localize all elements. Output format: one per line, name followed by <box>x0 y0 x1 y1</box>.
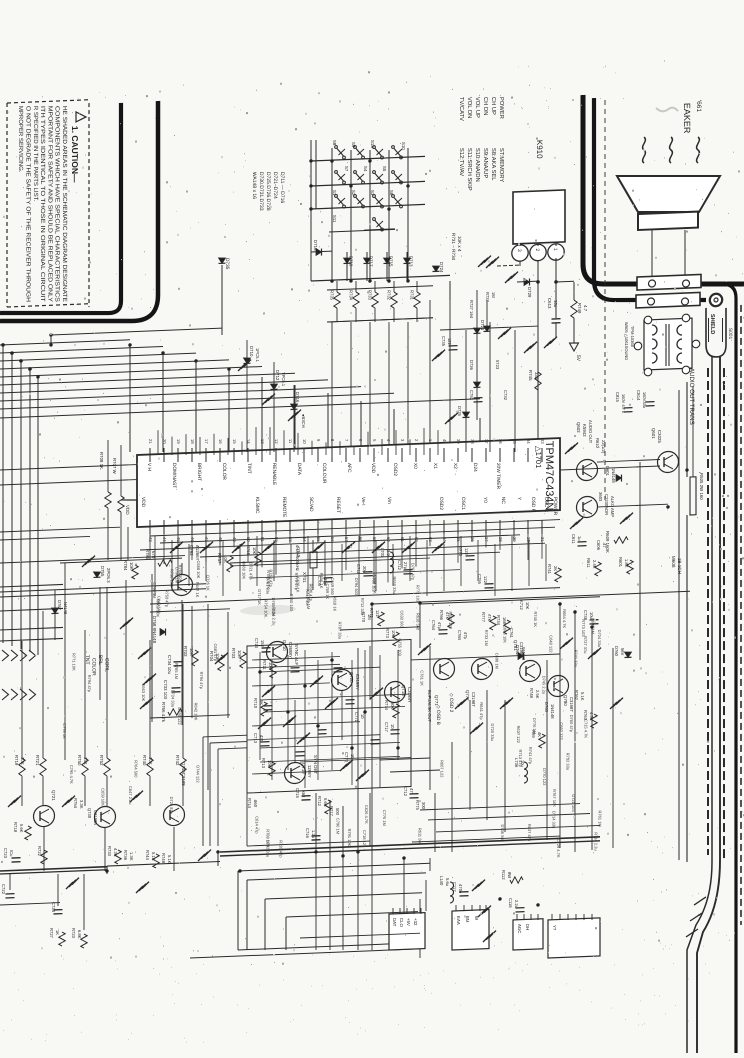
svg-text:R752: R752 <box>99 755 104 766</box>
svg-text:C796 1M: C796 1M <box>336 818 341 834</box>
svg-text:CB14: CB14 <box>636 390 641 401</box>
svg-text:S4: S4 <box>363 166 368 172</box>
svg-text:S10:ANA/DN: S10:ANA/DN <box>474 148 480 182</box>
svg-text:C752: C752 <box>469 390 474 401</box>
svg-text:2: 2 <box>534 248 540 251</box>
svg-text:S9: S9 <box>351 142 356 148</box>
svg-text:R734: R734 <box>496 615 501 626</box>
svg-text:47p: 47p <box>463 632 468 640</box>
svg-text:R618 560: R618 560 <box>415 613 420 631</box>
svg-text:30: 30 <box>526 537 531 543</box>
svg-text:C2688Y: C2688Y <box>288 642 293 658</box>
svg-text:C630 1K: C630 1K <box>296 577 301 593</box>
svg-text:R650 33u: R650 33u <box>392 576 397 594</box>
svg-text:C729 4.7K: C729 4.7K <box>556 839 561 858</box>
svg-text:R785: R785 <box>145 549 150 560</box>
svg-text:122: 122 <box>447 338 452 346</box>
svg-text:D726 1K: D726 1K <box>206 575 211 591</box>
svg-text:REMOTE: REMOTE <box>281 497 287 518</box>
svg-text:D717 1K: D717 1K <box>257 589 262 605</box>
svg-text:X62: X62 <box>301 790 306 798</box>
svg-text:DAT: DAT <box>392 918 397 927</box>
svg-text:2PD5.3: 2PD5.3 <box>106 568 111 583</box>
svg-text:R694 2.2u: R694 2.2u <box>271 607 276 626</box>
svg-text:S3: S3 <box>370 190 375 196</box>
svg-text:29: 29 <box>512 537 517 543</box>
svg-text:C718 122: C718 122 <box>362 830 367 848</box>
svg-text:X2: X2 <box>452 463 458 469</box>
svg-text:Q780: Q780 <box>563 695 568 706</box>
svg-text:R707 W: R707 W <box>112 458 117 475</box>
svg-text:C724: C724 <box>51 902 56 913</box>
svg-text:R712 33u: R712 33u <box>360 598 365 616</box>
svg-text:10: 10 <box>390 724 395 730</box>
svg-text:+5V: +5V <box>406 918 411 926</box>
svg-text:D710: D710 <box>249 346 254 357</box>
svg-text:2K: 2K <box>553 566 558 572</box>
svg-text:R773 103: R773 103 <box>581 619 586 637</box>
svg-text:OSC1: OSC1 <box>460 497 466 511</box>
svg-text:TINT: TINT <box>246 463 252 474</box>
svg-text:'661: '661 <box>695 100 702 113</box>
svg-text:1M: 1M <box>367 614 372 621</box>
svg-text:13: 13 <box>260 439 265 445</box>
svg-text:D720 33u: D720 33u <box>490 723 495 741</box>
svg-text:.47: .47 <box>602 542 607 549</box>
svg-text:C775: C775 <box>458 546 463 557</box>
svg-text:1u: 1u <box>577 536 582 542</box>
svg-text:R710: R710 <box>253 698 258 709</box>
svg-text:C611: C611 <box>571 534 576 545</box>
svg-text:C117: C117 <box>452 882 457 893</box>
svg-text:R784: R784 <box>123 560 128 571</box>
svg-text:17: 17 <box>204 439 209 445</box>
svg-text:122: 122 <box>483 576 488 584</box>
svg-text:VOL UP: VOL UP <box>474 97 480 118</box>
svg-text:R712: R712 <box>317 796 322 807</box>
svg-text:44: 44 <box>162 537 167 543</box>
svg-text:D718: D718 <box>313 240 318 251</box>
svg-text:5.6u: 5.6u <box>445 878 450 887</box>
svg-text:1K: 1K <box>55 930 60 936</box>
svg-text:R637 122: R637 122 <box>516 725 521 743</box>
svg-text:Q602: Q602 <box>576 422 581 433</box>
svg-text:R713 47p: R713 47p <box>518 749 523 767</box>
svg-text:55: 55 <box>316 537 321 543</box>
svg-text:R764 560: R764 560 <box>133 760 138 778</box>
svg-text:R736: R736 <box>123 850 128 861</box>
svg-text:D765: D765 <box>544 702 549 713</box>
svg-text:10K x 4: 10K x 4 <box>457 236 462 252</box>
svg-text:4.7: 4.7 <box>583 305 588 312</box>
svg-text:C2230ADR: C2230ADR <box>604 494 609 515</box>
svg-text:S11: S11 <box>332 215 337 223</box>
svg-text:K712: K712 <box>519 600 524 611</box>
svg-text:K910: K910 <box>535 140 544 160</box>
svg-text:C613: C613 <box>547 298 552 309</box>
svg-text:2.5K: 2.5K <box>535 690 540 699</box>
svg-text:C116: C116 <box>508 898 513 909</box>
svg-text:C764: C764 <box>431 620 436 631</box>
svg-text:D726: D726 <box>469 360 474 371</box>
svg-text:D24: D24 <box>472 463 478 472</box>
svg-text:R755: R755 <box>246 545 251 556</box>
svg-text:Q710: Q710 <box>282 640 287 651</box>
svg-text:D736 560: D736 560 <box>500 824 505 842</box>
svg-text:47p: 47p <box>437 622 442 630</box>
svg-text:R719: R719 <box>14 755 19 766</box>
svg-text:3603: 3603 <box>598 492 603 502</box>
svg-text:39: 39 <box>456 439 461 445</box>
svg-text:35: 35 <box>512 439 517 445</box>
svg-text:C714 4.7K: C714 4.7K <box>373 575 378 594</box>
svg-text:R664 4.7K: R664 4.7K <box>562 609 567 628</box>
svg-text:R702: R702 <box>183 646 188 657</box>
svg-text:160V 4.7 L: 160V 4.7 L <box>621 394 626 414</box>
svg-text:D724: D724 <box>439 262 444 273</box>
svg-text:C3198T: C3198T <box>569 697 574 713</box>
svg-text:15: 15 <box>232 439 237 445</box>
svg-text:R731 ~ R734: R731 ~ R734 <box>451 233 456 261</box>
svg-text:8W: 8W <box>507 872 512 879</box>
svg-text:NC: NC <box>500 497 506 505</box>
svg-text:C723: C723 <box>3 848 8 859</box>
svg-text:20W TIMER: 20W TIMER <box>495 463 501 490</box>
svg-text:R641 47p: R641 47p <box>479 702 484 720</box>
svg-text:+32: +32 <box>413 918 418 926</box>
svg-text:R745 1K: R745 1K <box>533 611 538 627</box>
svg-text:1M: 1M <box>491 292 496 299</box>
svg-text:15K: 15K <box>83 757 88 765</box>
svg-text:D758 9N4148: D758 9N4148 <box>152 616 157 644</box>
svg-text:Vin: Vin <box>386 497 392 504</box>
svg-text:10K: 10K <box>20 757 25 765</box>
svg-text:D770 122: D770 122 <box>542 768 547 786</box>
svg-text:Y0: Y0 <box>482 497 488 503</box>
svg-text:1N4148: 1N4148 <box>550 704 555 720</box>
svg-text:DATA: DATA <box>296 463 302 476</box>
svg-text:D721 103: D721 103 <box>571 794 576 812</box>
svg-text:C735: C735 <box>441 336 446 347</box>
svg-text:10K: 10K <box>252 547 257 555</box>
svg-text:R708 1K.: R708 1K. <box>99 452 104 471</box>
svg-text:R791 10K: R791 10K <box>347 828 352 846</box>
svg-text:TPC5.1: TPC5.1 <box>281 372 286 387</box>
svg-text:43: 43 <box>148 537 153 543</box>
svg-text:D745 2.2u: D745 2.2u <box>542 676 547 695</box>
svg-text:R SPECIFIED IN THE PARTS LIST.: R SPECIFIED IN THE PARTS LIST. <box>32 106 38 202</box>
svg-text:R112: R112 <box>501 870 506 881</box>
svg-text:R766 4.7k: R766 4.7k <box>161 702 166 723</box>
svg-text:R642 10K: R642 10K <box>193 702 198 720</box>
svg-text:R759 47p: R759 47p <box>165 590 170 608</box>
svg-text:SYNC ALF: SYNC ALF <box>294 644 299 666</box>
svg-text:D729: D729 <box>527 287 532 298</box>
svg-text:1: 1 <box>552 248 558 251</box>
svg-text:VOL DN: VOL DN <box>466 97 472 119</box>
svg-text:D744 122: D744 122 <box>195 765 200 783</box>
svg-text:AFC: AFC <box>346 463 352 473</box>
svg-text:34: 34 <box>526 439 531 445</box>
svg-text:19: 19 <box>176 439 181 445</box>
svg-text:C633 560: C633 560 <box>400 610 405 628</box>
svg-text:330: 330 <box>534 372 539 380</box>
svg-text:R788 103: R788 103 <box>266 829 271 847</box>
svg-text:RESET: RESET <box>335 497 341 513</box>
svg-text:K5942: K5942 <box>582 424 587 437</box>
svg-text:ST:MEMORY: ST:MEMORY <box>498 148 504 183</box>
svg-text:D721: D721 <box>480 320 485 331</box>
svg-text:SC/AD: SC/AD <box>308 497 314 512</box>
svg-text:R660 10K: R660 10K <box>241 561 246 579</box>
svg-text:◇ OSD 2: ◇ OSD 2 <box>448 693 454 713</box>
svg-text:C761 1K: C761 1K <box>420 670 425 686</box>
svg-text:RENABLE: RENABLE <box>271 463 277 486</box>
svg-text:R727: R727 <box>49 928 54 939</box>
svg-text:HE SHADED AREAS IN THE SCHEMAT: HE SHADED AREAS IN THE SCHEMATIC DIAGRAM… <box>61 106 67 302</box>
svg-text:R721: R721 <box>35 755 40 766</box>
svg-text:R637 47p: R637 47p <box>527 824 532 842</box>
svg-text:EAA: EAA <box>456 916 461 925</box>
svg-text:1. CAUTION—: 1. CAUTION— <box>70 126 80 184</box>
svg-text:10K: 10K <box>129 562 134 570</box>
svg-text:5.6K: 5.6K <box>19 824 24 833</box>
svg-text:DOMINAST: DOMINAST <box>171 463 177 489</box>
svg-text:D717: D717 <box>369 256 374 267</box>
svg-text:C3198Y: C3198Y <box>407 687 412 703</box>
svg-text:22(1/2): 22(1/2) <box>601 440 606 454</box>
svg-text:122: 122 <box>464 548 469 556</box>
svg-text:TPM47C434N: TPM47C434N <box>543 441 555 511</box>
svg-text:OSD2: OSD2 <box>392 463 398 477</box>
svg-text:R714: R714 <box>247 798 252 809</box>
svg-text:R785 1M: R785 1M <box>174 663 179 679</box>
svg-text:S12:TV/AV: S12:TV/AV <box>458 148 464 177</box>
svg-text:R618 1K: R618 1K <box>332 596 337 612</box>
svg-text:POWER: POWER <box>498 97 504 119</box>
svg-text:D716: D716 <box>295 392 300 403</box>
svg-text:152: 152 <box>260 640 265 648</box>
svg-text:10: 10 <box>302 439 307 445</box>
svg-text:C713: C713 <box>253 733 258 744</box>
svg-text:X1: X1 <box>432 463 438 469</box>
svg-text:Ve-I: Ve-I <box>360 497 366 506</box>
svg-text:R611 560: R611 560 <box>418 828 423 846</box>
svg-text:C626 4.7K: C626 4.7K <box>364 805 369 824</box>
svg-text:R767 10K: R767 10K <box>552 789 557 807</box>
svg-text:37: 37 <box>484 439 489 445</box>
svg-text:1PC5.1: 1PC5.1 <box>255 348 260 363</box>
svg-text:27: 27 <box>484 537 489 543</box>
svg-text:MPORTANT FOR SAFETY AND SHOULD: MPORTANT FOR SAFETY AND SHOULD BE REPLAC… <box>46 106 52 302</box>
svg-text:S8:AKA SEL: S8:AKA SEL <box>490 148 496 182</box>
svg-text:D755: D755 <box>100 566 105 577</box>
svg-text:R680 122: R680 122 <box>448 611 453 629</box>
svg-text:ICu: ICu <box>9 850 14 857</box>
svg-text:63: 63 <box>428 537 433 543</box>
svg-text:R731: R731 <box>410 290 415 301</box>
svg-text:C789 1K: C789 1K <box>325 583 330 599</box>
svg-text:C668 10K: C668 10K <box>196 560 201 578</box>
svg-text:S001: S001 <box>727 328 733 340</box>
svg-text:C3198Y: C3198Y <box>355 674 360 690</box>
svg-text:R748: R748 <box>161 853 166 864</box>
svg-text:26: 26 <box>470 537 475 543</box>
svg-text:N4148: N4148 <box>63 602 68 615</box>
svg-text:10u: 10u <box>553 300 558 308</box>
svg-text:D721–D724: D721–D724 <box>272 172 278 199</box>
svg-text:D724 33u: D724 33u <box>597 630 602 648</box>
svg-text:D760: D760 <box>614 646 619 657</box>
svg-text:Y?: Y? <box>552 925 557 931</box>
svg-text:C681 47p: C681 47p <box>213 643 218 661</box>
svg-text:R750 103: R750 103 <box>289 594 294 612</box>
svg-text:R766: R766 <box>439 610 444 621</box>
svg-text:C666 10K: C666 10K <box>502 625 507 643</box>
svg-text:C710: C710 <box>296 547 301 558</box>
svg-text:S6: S6 <box>389 190 394 196</box>
svg-text:R728 47p: R728 47p <box>279 840 284 858</box>
svg-text:R733 1M: R733 1M <box>484 630 489 646</box>
svg-text:R732 33u: R732 33u <box>566 753 571 771</box>
svg-text:C663 10K: C663 10K <box>141 683 146 701</box>
svg-text:X701: X701 <box>302 572 307 583</box>
svg-text:C733 103: C733 103 <box>163 680 168 700</box>
svg-text:DH: DH <box>525 924 530 931</box>
svg-text:Q771: Q771 <box>434 695 439 706</box>
svg-text:C3198T: C3198T <box>471 692 476 708</box>
svg-text:COLOUR: COLOUR <box>321 463 327 484</box>
svg-text:AUDIO OUT: AUDIO OUT <box>588 420 593 444</box>
svg-text:R773: R773 <box>385 628 390 639</box>
svg-text:S1: S1 <box>332 190 337 196</box>
svg-text:D712: D712 <box>275 370 280 381</box>
svg-text:C770: C770 <box>344 752 349 763</box>
svg-text:V H: V H <box>146 463 152 472</box>
svg-text:C716: C716 <box>305 828 310 839</box>
svg-text:S8: S8 <box>332 140 337 146</box>
svg-text:AGC: AGC <box>517 924 522 934</box>
svg-text:R713: R713 <box>261 758 266 769</box>
svg-text:R761 1M: R761 1M <box>597 810 602 826</box>
svg-text:COLOR: COLOR <box>91 658 97 676</box>
svg-text:L140: L140 <box>439 876 444 886</box>
svg-text:1.2u: 1.2u <box>311 830 316 839</box>
svg-text:CH DN: CH DN <box>482 97 488 116</box>
svg-text:COLOR: COLOR <box>221 463 227 481</box>
svg-text:C761: C761 <box>509 628 514 639</box>
svg-text:R745: R745 <box>528 370 533 381</box>
svg-text:M608: M608 <box>671 556 676 568</box>
svg-text:D730.D731.D733: D730.D731.D733 <box>258 172 264 211</box>
svg-text:VDD: VDD <box>140 497 146 508</box>
svg-text:51: 51 <box>260 537 265 543</box>
svg-text:CLO: CLO <box>399 918 404 928</box>
svg-text:C2025: C2025 <box>657 430 662 444</box>
svg-text:D725.D726.D728: D725.D726.D728 <box>265 172 271 211</box>
svg-text:54: 54 <box>302 537 307 543</box>
svg-text:C722: C722 <box>1 884 6 895</box>
svg-text:D776 1M: D776 1M <box>532 718 537 734</box>
svg-text:R737: R737 <box>485 292 490 303</box>
svg-text:BUFUALSK OUT: BUFUALSK OUT <box>427 690 432 723</box>
svg-text:3.9: 3.9 <box>386 550 391 557</box>
svg-text:C648 122: C648 122 <box>549 635 554 653</box>
svg-text:R744: R744 <box>145 850 150 861</box>
svg-text:R794 47p: R794 47p <box>199 671 204 689</box>
svg-text:R611: R611 <box>586 558 591 569</box>
svg-text:OSD R: OSD R <box>530 497 536 513</box>
svg-text:C649 560: C649 560 <box>156 596 161 614</box>
svg-text:S5: S5 <box>382 166 387 172</box>
svg-text:R772 103: R772 103 <box>416 585 421 603</box>
svg-text:R741 33u: R741 33u <box>574 649 579 667</box>
svg-text:56: 56 <box>330 537 335 543</box>
svg-text:C3198A: C3198A <box>93 810 98 826</box>
svg-text:D713: D713 <box>409 256 414 267</box>
svg-text:S11:SRCH SKIP: S11:SRCH SKIP <box>466 148 472 191</box>
svg-text:OSD2: OSD2 <box>438 497 444 511</box>
svg-text:R764 10K: R764 10K <box>178 564 183 582</box>
svg-text:S2: S2 <box>351 190 356 196</box>
svg-text:AUDIO OUT TRANS: AUDIO OUT TRANS <box>688 368 695 425</box>
svg-text:R732: R732 <box>387 290 392 301</box>
svg-text:40: 40 <box>442 439 447 445</box>
svg-text:R749: R749 <box>577 303 582 314</box>
svg-text:31: 31 <box>540 537 545 543</box>
svg-text:S10: S10 <box>401 142 406 151</box>
svg-text:D735: D735 <box>224 258 230 270</box>
svg-text:Q721: Q721 <box>51 790 56 801</box>
svg-text:Q740C3198: Q740C3198 <box>181 762 186 786</box>
svg-text:R711: R711 <box>262 660 267 671</box>
svg-text:BRIGHT: BRIGHT <box>196 463 202 481</box>
svg-text:D714 33u: D714 33u <box>552 811 557 829</box>
svg-text:VDD: VDD <box>125 505 130 516</box>
svg-text:R733: R733 <box>107 846 112 857</box>
svg-text:C711: C711 <box>356 564 361 575</box>
svg-text:R741: R741 <box>547 564 552 575</box>
svg-text:S9:ANA/UP: S9:ANA/UP <box>482 148 488 179</box>
svg-text:D711 — D716: D711 — D716 <box>279 172 285 204</box>
svg-text:C714: C714 <box>254 638 259 649</box>
svg-text:R754 10K: R754 10K <box>264 599 269 617</box>
svg-text:X0: X0 <box>412 463 418 469</box>
svg-text:R757: R757 <box>217 553 222 564</box>
svg-text:EAKER: EAKER <box>682 103 692 134</box>
svg-text:18: 18 <box>190 439 195 445</box>
svg-text:10: 10 <box>360 714 365 720</box>
svg-text:Q720: Q720 <box>349 672 354 683</box>
svg-text:5.1K: 5.1K <box>580 692 585 701</box>
svg-text:R667 122: R667 122 <box>440 760 445 778</box>
svg-text:COMPONENTS WHICH HAVE SPECIAL: COMPONENTS WHICH HAVE SPECIAL CHARACTERI… <box>54 106 60 302</box>
svg-text:WA05 △1061SOUND: WA05 △1061SOUND <box>624 322 629 361</box>
svg-text:28: 28 <box>498 537 503 543</box>
svg-text:C647 2.2u: C647 2.2u <box>128 786 133 805</box>
svg-text:WA148 x 16: WA148 x 16 <box>251 172 257 199</box>
svg-text:△1701: △1701 <box>534 446 543 469</box>
svg-text:3.3K: 3.3K <box>79 800 84 809</box>
svg-text:TV/CATV: TV/CATV <box>458 97 464 121</box>
svg-text:Q601: Q601 <box>651 428 656 439</box>
svg-text:S15: S15 <box>370 140 375 149</box>
svg-text:6.8K: 6.8K <box>77 930 82 939</box>
svg-text:D724 33u: D724 33u <box>170 690 175 708</box>
svg-text:45: 45 <box>176 537 181 543</box>
svg-text:D760 47p: D760 47p <box>569 715 574 733</box>
svg-text:C712: C712 <box>397 560 402 571</box>
